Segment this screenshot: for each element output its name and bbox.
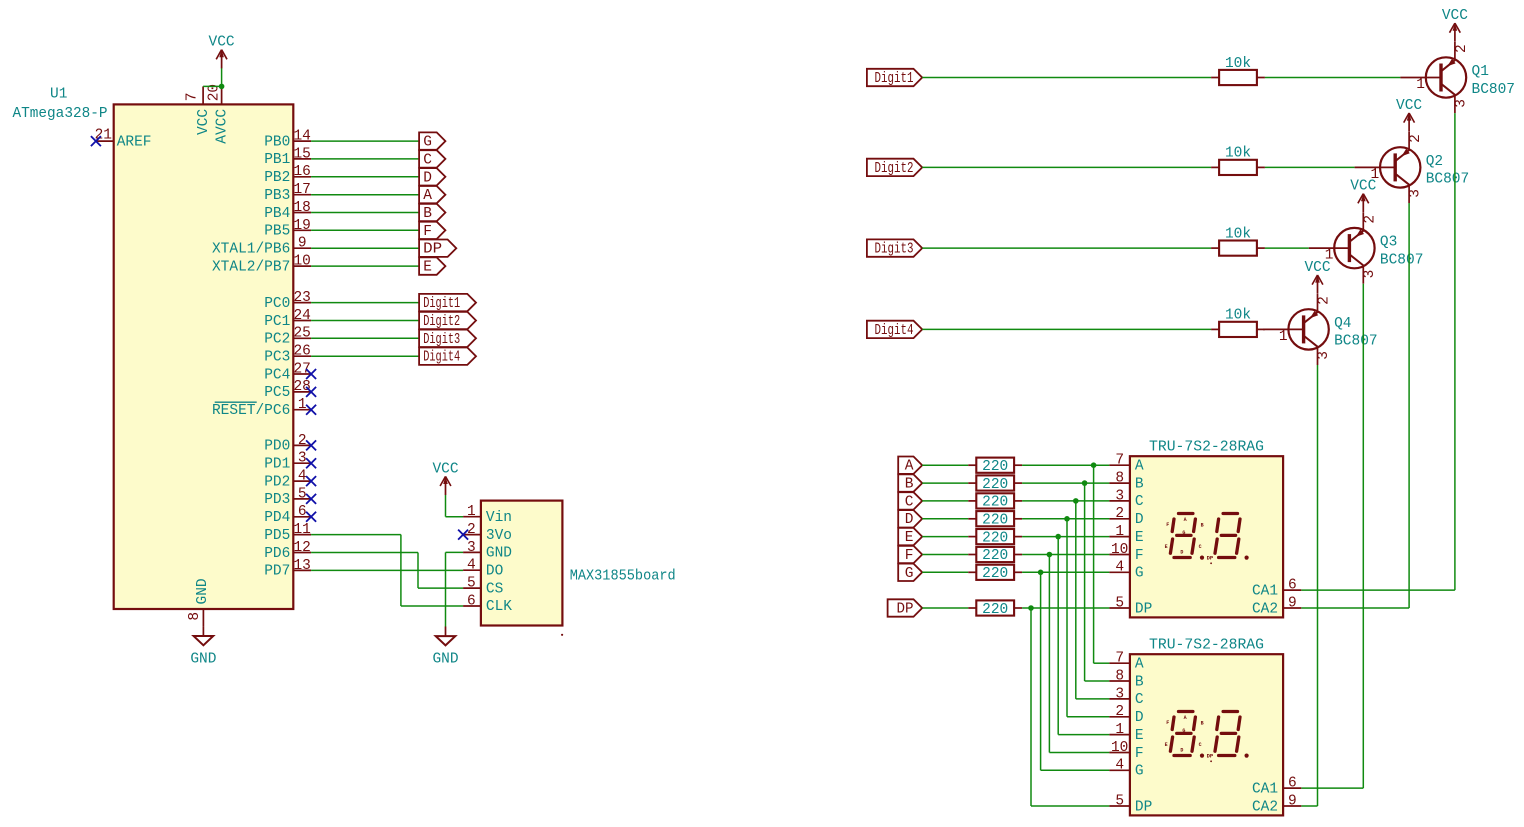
svg-text:E: E [1135,530,1144,546]
svg-text:Q3: Q3 [1380,235,1397,251]
svg-text:220: 220 [982,513,1008,529]
svg-text:BC807: BC807 [1380,252,1424,268]
svg-text:17: 17 [293,182,310,198]
svg-text:Q4: Q4 [1334,316,1351,332]
svg-text:11: 11 [293,522,310,538]
svg-text:AVCC: AVCC [214,109,230,144]
svg-text:3: 3 [1115,488,1124,504]
svg-text:PB2: PB2 [264,170,290,186]
svg-text:16: 16 [293,164,310,180]
svg-text:24: 24 [293,308,310,324]
svg-text:B: B [423,206,432,222]
svg-text:VCC: VCC [1350,179,1376,195]
svg-text:DP: DP [423,242,442,258]
svg-text:F: F [1166,720,1169,726]
svg-text:GND: GND [195,578,211,604]
svg-text:Q2: Q2 [1426,154,1443,170]
svg-text:3: 3 [1362,270,1378,279]
svg-text:7: 7 [185,93,201,102]
svg-text:PC4: PC4 [264,367,290,383]
svg-text:PD1: PD1 [264,457,290,473]
svg-text:10: 10 [1111,542,1128,558]
svg-text:4: 4 [298,469,307,485]
svg-text:8: 8 [187,612,203,621]
svg-text:A: A [423,188,432,204]
svg-text:Digit4: Digit4 [423,350,460,366]
svg-text:VCC: VCC [1396,98,1422,114]
svg-text:PB4: PB4 [264,206,290,222]
svg-text:DP: DP [1207,752,1214,759]
svg-text:8: 8 [1115,470,1124,486]
svg-text:23: 23 [293,290,310,306]
svg-text:DP: DP [1207,554,1214,561]
svg-text:RESET/PC6: RESET/PC6 [212,403,290,419]
svg-text:9: 9 [298,236,307,252]
svg-text:3: 3 [1316,351,1332,360]
svg-text:VCC: VCC [209,35,235,51]
svg-text:F: F [1135,746,1144,762]
svg-text:Digit1: Digit1 [423,296,460,312]
svg-text:E: E [1135,728,1144,744]
svg-text:10k: 10k [1225,56,1251,72]
svg-text:VCC: VCC [196,109,212,135]
svg-text:5: 5 [298,486,307,502]
svg-text:D: D [905,512,914,528]
svg-text:PD6: PD6 [264,546,290,562]
svg-text:G: G [905,566,914,582]
svg-text:G: G [1135,764,1144,780]
svg-text:C: C [1135,494,1144,510]
svg-text:BC807: BC807 [1472,82,1516,98]
svg-text:DP: DP [1135,601,1152,617]
svg-text:1: 1 [1115,722,1124,738]
svg-text:2: 2 [1317,296,1333,305]
svg-text:3: 3 [1115,686,1124,702]
svg-text:8: 8 [1115,668,1124,684]
svg-text:220: 220 [982,566,1008,582]
svg-text:E: E [1165,742,1168,748]
svg-text:PD5: PD5 [264,528,290,544]
svg-text:F: F [1166,522,1169,528]
svg-text:C: C [1135,692,1144,708]
svg-text:B: B [1135,476,1144,492]
svg-text:CLK: CLK [486,599,512,615]
svg-text:1: 1 [467,504,476,520]
svg-text:PB1: PB1 [264,152,290,168]
svg-text:GND: GND [486,546,512,562]
svg-text:6: 6 [1288,578,1297,594]
svg-text:PD0: PD0 [264,439,290,455]
svg-text:C: C [423,152,432,168]
svg-text:14: 14 [293,129,310,145]
svg-text:A: A [905,459,914,475]
svg-text:7: 7 [1115,651,1124,667]
svg-text:PC5: PC5 [264,385,290,401]
svg-text:1: 1 [1115,524,1124,540]
svg-text:18: 18 [293,200,310,216]
svg-text:3: 3 [1454,99,1470,108]
svg-text:MAX31855board: MAX31855board [570,569,676,585]
svg-text:E: E [423,260,432,276]
svg-text:4: 4 [1115,560,1124,576]
svg-text:5: 5 [1115,595,1124,611]
svg-text:D: D [1135,512,1144,528]
svg-text:C: C [1199,742,1202,748]
svg-text:PB0: PB0 [264,134,290,150]
svg-text:DP: DP [1135,799,1152,815]
svg-text:DO: DO [486,564,503,580]
svg-text:Digit4: Digit4 [875,323,914,339]
svg-text:Vin: Vin [486,510,512,526]
svg-text:2: 2 [1362,215,1378,224]
svg-text:VCC: VCC [432,461,458,477]
svg-text:CS: CS [486,581,503,597]
svg-text:2: 2 [1115,704,1124,720]
svg-text:220: 220 [982,530,1008,546]
svg-text:10: 10 [1111,740,1128,756]
svg-text:G: G [1135,566,1144,582]
svg-text:PD7: PD7 [264,564,290,580]
svg-text:3: 3 [298,451,307,467]
svg-text:CA2: CA2 [1252,601,1278,617]
svg-text:9: 9 [1288,793,1297,809]
svg-text:Digit2: Digit2 [875,161,914,177]
svg-text:CA2: CA2 [1252,799,1278,815]
svg-text:D: D [1180,747,1183,753]
svg-text:D: D [1135,710,1144,726]
svg-text:4: 4 [467,558,476,574]
svg-text:1: 1 [1279,329,1288,345]
svg-text:26: 26 [293,344,310,360]
svg-text:E: E [1165,544,1168,550]
svg-text:E: E [905,530,914,546]
svg-text:Digit3: Digit3 [875,242,914,258]
svg-text:B: B [1201,721,1204,727]
svg-text:3Vo: 3Vo [486,528,512,544]
svg-text:4: 4 [1115,758,1124,774]
svg-text:GND: GND [432,652,458,668]
svg-text:220: 220 [982,548,1008,564]
svg-text:2: 2 [1408,134,1424,143]
svg-text:DP: DP [897,602,914,618]
svg-text:VCC: VCC [1442,8,1468,24]
svg-text:CA1: CA1 [1252,781,1278,797]
svg-text:2: 2 [298,433,307,449]
svg-text:10k: 10k [1225,226,1251,242]
svg-text:27: 27 [293,361,310,377]
svg-text:PC0: PC0 [264,296,290,312]
svg-text:PC3: PC3 [264,350,290,366]
svg-text:10k: 10k [1225,308,1251,324]
svg-text:Digit1: Digit1 [875,71,914,87]
svg-text:220: 220 [982,602,1008,618]
svg-text:VCC: VCC [1304,260,1330,276]
svg-text:A: A [1184,517,1187,523]
svg-text:PB5: PB5 [264,224,290,240]
svg-text:PD3: PD3 [264,492,290,508]
svg-text:F: F [423,224,432,240]
svg-text:F: F [905,548,914,564]
svg-text:6: 6 [467,593,476,609]
svg-text:25: 25 [293,326,310,342]
svg-text:220: 220 [982,459,1008,475]
svg-text:ATmega328-P: ATmega328-P [13,106,108,122]
svg-text:PB3: PB3 [264,188,290,204]
svg-text:PC2: PC2 [264,332,290,348]
svg-text:Q1: Q1 [1472,64,1489,80]
svg-text:220: 220 [982,495,1008,511]
svg-text:PD2: PD2 [264,474,290,490]
svg-text:28: 28 [293,379,310,395]
svg-text:6: 6 [298,504,307,520]
svg-text:TRU-7S2-28RAG: TRU-7S2-28RAG [1149,440,1264,456]
svg-text:1: 1 [1416,77,1425,93]
svg-text:13: 13 [293,558,310,574]
svg-text:3: 3 [1408,189,1424,198]
svg-text:15: 15 [293,146,310,162]
svg-text:B: B [1135,674,1144,690]
svg-text:CA1: CA1 [1252,583,1278,599]
svg-text:3: 3 [467,540,476,556]
svg-text:G: G [423,135,432,151]
svg-text:2: 2 [1454,44,1470,53]
svg-text:C: C [905,494,914,510]
svg-text:5: 5 [467,576,476,592]
svg-text:7: 7 [1115,453,1124,469]
svg-text:A: A [1184,715,1187,721]
svg-text:9: 9 [1288,595,1297,611]
svg-text:2: 2 [1115,506,1124,522]
svg-text:G: G [1182,530,1185,536]
svg-text:PC1: PC1 [264,314,290,330]
svg-text:D: D [1180,549,1183,555]
svg-text:Digit3: Digit3 [423,332,460,348]
svg-text:12: 12 [293,540,310,556]
svg-text:D: D [423,170,432,186]
svg-text:F: F [1135,548,1144,564]
svg-text:B: B [1201,523,1204,529]
svg-text:5: 5 [1115,793,1124,809]
svg-text:1: 1 [298,397,307,413]
svg-text:BC807: BC807 [1334,334,1378,350]
svg-text:BC807: BC807 [1426,172,1470,188]
svg-text:XTAL1/PB6: XTAL1/PB6 [212,242,290,258]
svg-text:10: 10 [293,253,310,269]
svg-text:XTAL2/PB7: XTAL2/PB7 [212,259,290,275]
svg-text:PD4: PD4 [264,510,290,526]
svg-text:6: 6 [1288,776,1297,792]
svg-text:B: B [905,477,914,493]
svg-text:G: G [1182,728,1185,734]
svg-text:10k: 10k [1225,146,1251,162]
svg-text:U1: U1 [50,87,67,103]
svg-text:GND: GND [190,652,216,668]
svg-text:A: A [1135,459,1144,475]
svg-text:Digit2: Digit2 [423,314,460,330]
svg-text:TRU-7S2-28RAG: TRU-7S2-28RAG [1149,638,1264,654]
svg-text:19: 19 [293,218,310,234]
svg-text:C: C [1199,544,1202,550]
svg-text:A: A [1135,657,1144,673]
svg-text:220: 220 [982,477,1008,493]
svg-text:AREF: AREF [117,134,152,150]
